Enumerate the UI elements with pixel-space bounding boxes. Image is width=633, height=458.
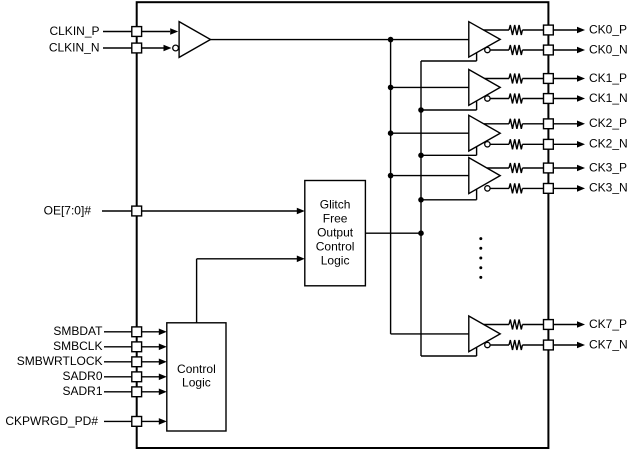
wire CK7_N to pin <box>522 344 543 346</box>
wire enable branch to CK7 <box>421 347 477 356</box>
wire CK1_N external <box>553 95 585 102</box>
resistor CK1_N series <box>509 94 522 104</box>
svg-text:CK1_N: CK1_N <box>589 91 628 105</box>
pin CK2_N <box>544 139 554 149</box>
junction enable bus glitch-free input <box>418 230 424 236</box>
wire SMBDAT line <box>104 329 167 336</box>
svg-text:CK3_N: CK3_N <box>589 181 628 195</box>
chip boundary box <box>137 2 549 448</box>
resistor CK2_N series <box>509 139 522 149</box>
junction clock bus CK3 <box>388 173 394 179</box>
junction enable bus CK1 <box>418 107 424 113</box>
wire CK1_P output <box>485 78 509 80</box>
svg-text:CLKIN_P: CLKIN_P <box>49 24 99 38</box>
wire clock bus branch to CK2 input <box>391 132 469 134</box>
inversion bubble CK0_N <box>485 47 490 52</box>
pin CK3_N <box>544 184 554 194</box>
wire CK1_N to pin <box>522 98 543 100</box>
wire clock bus to CK7 input <box>391 333 469 335</box>
pin OE[7:0]# <box>132 206 142 216</box>
wire CKPWRGD_PD# line <box>104 418 167 425</box>
svg-text:CK2_P: CK2_P <box>589 116 627 130</box>
svg-text:CK0_N: CK0_N <box>589 42 628 56</box>
svg-text:Glitch: Glitch <box>320 198 351 212</box>
pin CK3_P <box>544 163 554 173</box>
junction enable bus CK3 <box>418 197 424 203</box>
svg-text:Control: Control <box>177 362 216 376</box>
svg-text:CK3_P: CK3_P <box>589 160 627 174</box>
pin CK2_P <box>544 119 554 129</box>
wire CK0_N output <box>490 49 509 51</box>
wire OE[7:0]# line <box>102 208 305 215</box>
pin CLKIN_N <box>132 43 142 53</box>
pin CK0_P <box>544 25 554 35</box>
pin CK1_N <box>544 94 554 104</box>
wire CLKIN_P line <box>103 28 178 35</box>
output buffer CK0 <box>469 22 500 57</box>
inversion bubble on U1 CLKIN_N input <box>173 45 179 51</box>
wire clock bus branch to CK3 input <box>391 175 469 177</box>
wire CK2_N external <box>553 141 585 148</box>
inversion bubble CK2_N <box>485 142 490 147</box>
junction enable bus CK2 <box>418 153 424 159</box>
wire CK3_P external <box>553 165 585 172</box>
resistor CK3_P series <box>509 163 522 173</box>
wire CK2_P output <box>484 123 509 125</box>
resistor CK3_N series <box>509 183 522 193</box>
wire CK0_N external <box>553 47 585 54</box>
pin SADR1 <box>132 387 142 397</box>
block Glitch Free Output Control Logic <box>305 181 366 286</box>
pin CLKIN_P <box>132 27 142 37</box>
svg-text:SMBWRTLOCK: SMBWRTLOCK <box>17 354 103 368</box>
wire CK2_N to pin <box>522 143 543 145</box>
svg-text:Control: Control <box>316 240 355 254</box>
wire glitch-free output to enable bus <box>365 232 421 234</box>
wire enable bus vertical <box>420 61 422 356</box>
svg-text:Output: Output <box>317 226 354 240</box>
input buffer U1 <box>179 22 210 58</box>
junction clock bus CK1 <box>388 85 394 91</box>
wire SMBCLK line <box>104 344 167 351</box>
inversion bubble CK1_N <box>485 96 490 101</box>
pin CKPWRGD_PD# <box>132 417 142 427</box>
pin CK0_N <box>544 45 554 55</box>
resistor CK0_N series <box>509 45 522 55</box>
svg-text:CK2_N: CK2_N <box>589 137 628 151</box>
wire CK1_N output <box>490 98 509 100</box>
svg-text:Logic: Logic <box>321 253 350 267</box>
svg-text:CK7_N: CK7_N <box>589 337 628 351</box>
resistor CK1_P series <box>509 74 522 84</box>
pin SMBCLK <box>132 342 142 352</box>
wire CK1_P external <box>553 75 585 82</box>
svg-text:CK0_P: CK0_P <box>589 22 627 36</box>
ellipsis omitted channels CK4-CK6 <box>479 237 482 279</box>
wire CK3_N to pin <box>522 187 543 189</box>
wire enable branch to CK1 <box>421 101 477 110</box>
svg-text:CLKIN_N: CLKIN_N <box>49 40 100 54</box>
block Control Logic <box>167 323 226 431</box>
svg-text:Free: Free <box>323 212 348 226</box>
resistor CK0_P series <box>509 25 522 35</box>
wire CK3_N output <box>490 187 509 189</box>
resistor CK2_P series <box>509 119 522 129</box>
wire CK3_P output <box>487 167 509 169</box>
wire CK0_P to pin <box>522 29 543 31</box>
svg-text:SMBDAT: SMBDAT <box>53 324 103 338</box>
output buffer CK3 <box>469 158 500 194</box>
wire enable branch to CK3 <box>421 189 477 200</box>
output buffer CK1 <box>469 70 500 106</box>
svg-text:CKPWRGD_PD#: CKPWRGD_PD# <box>5 414 98 428</box>
wire CK0_P external <box>553 27 585 34</box>
svg-text:CK1_P: CK1_P <box>589 71 627 85</box>
wire U1 output to CK0 buffer <box>211 39 469 41</box>
wire SADR0 line <box>104 374 167 381</box>
inversion bubble CK7_N <box>485 342 490 347</box>
wire control logic to glitch-free logic <box>197 256 305 323</box>
wire CK7_N external <box>553 342 585 349</box>
svg-text:CK7_P: CK7_P <box>589 317 627 331</box>
resistor CK7_P series <box>509 320 522 330</box>
wire CK7_P to pin <box>522 324 543 326</box>
output buffer CK7 <box>469 316 500 352</box>
svg-text:OE[7:0]#: OE[7:0]# <box>44 203 92 217</box>
pin SMBWRTLOCK <box>132 357 142 367</box>
wire CK1_P to pin <box>522 78 543 80</box>
wire CK0_P output <box>484 29 510 31</box>
svg-text:SADR0: SADR0 <box>62 369 102 383</box>
resistor CK7_N series <box>509 340 522 350</box>
wire CK2_P to pin <box>522 123 543 125</box>
wire CLKIN_N line <box>103 45 172 52</box>
pin CK7_N <box>544 340 554 350</box>
svg-text:SMBCLK: SMBCLK <box>53 339 102 353</box>
pin CK7_P <box>544 320 554 330</box>
pin CK1_P <box>544 74 554 84</box>
wire clock bus vertical <box>390 40 392 334</box>
junction clock bus at U1 output <box>388 37 394 43</box>
output buffer CK2 <box>469 115 500 151</box>
pin SADR0 <box>132 372 142 382</box>
svg-text:SADR1: SADR1 <box>62 384 102 398</box>
wire clock bus branch to CK1 input <box>391 86 469 88</box>
wire CK7_P external <box>553 321 585 328</box>
wire SADR1 line <box>104 389 167 396</box>
wire CK3_N external <box>553 185 585 192</box>
wire CK7_N output <box>490 344 509 346</box>
wire CK3_P to pin <box>522 167 543 169</box>
inversion bubble CK3_N <box>485 186 490 191</box>
wire SMBWRTLOCK line <box>104 359 167 366</box>
svg-text:Logic: Logic <box>182 376 211 390</box>
wire CK0_N to pin <box>522 49 543 51</box>
pin SMBDAT <box>132 327 142 337</box>
wire CK2_P external <box>553 121 585 128</box>
wire CK2_N output <box>490 143 509 145</box>
wire CK7_P output <box>484 324 509 326</box>
junction clock bus CK2 <box>388 130 394 136</box>
wire enable branch to CK0 <box>421 53 477 61</box>
wire enable branch to CK2 <box>421 147 477 156</box>
